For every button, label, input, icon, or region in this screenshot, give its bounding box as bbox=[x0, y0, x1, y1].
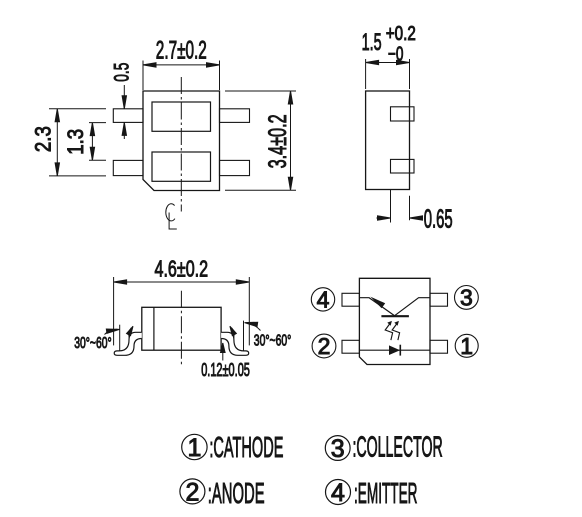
svg-text:0.65: 0.65 bbox=[424, 204, 453, 234]
svg-text:30°~60°: 30°~60° bbox=[74, 335, 112, 352]
side view: lower lead bbox=[391, 159, 415, 173]
pin circle 3 bbox=[455, 285, 479, 311]
top view: vertical centerline bbox=[180, 77, 182, 212]
left 30~60 leader arrow bbox=[105, 327, 120, 334]
svg-text:3: 3 bbox=[460, 285, 473, 311]
svg-text:−0: −0 bbox=[388, 43, 404, 65]
top view: package body outline bbox=[143, 91, 220, 191]
svg-text:+0.2: +0.2 bbox=[386, 23, 416, 45]
top view: lead pin 4 (upper-left) bbox=[113, 109, 143, 123]
right 30~60 leader arrow bbox=[244, 320, 260, 330]
side view: package body bbox=[366, 91, 410, 190]
dimension 0.12±0.05 bbox=[201, 343, 250, 380]
light arrow 2 bbox=[392, 321, 399, 340]
top view: lead pin 1 (upper-right) bbox=[220, 109, 250, 123]
svg-text:1: 1 bbox=[187, 434, 201, 462]
svg-text:1.3: 1.3 bbox=[63, 129, 88, 155]
legend pin 3 circle bbox=[325, 435, 350, 463]
svg-text::ANODE: :ANODE bbox=[208, 478, 265, 510]
svg-text:2: 2 bbox=[318, 333, 331, 359]
front view: body face line bbox=[153, 307, 155, 350]
front view: vertical centerline bbox=[180, 291, 182, 366]
dimension 3.4±0.2 bbox=[225, 91, 296, 190]
svg-text::CATHODE: :CATHODE bbox=[209, 432, 283, 464]
top view: die pad window lower bbox=[152, 152, 211, 181]
phototransistor: base bar bbox=[381, 315, 409, 317]
pin circle 1 bbox=[455, 333, 478, 359]
phototransistor: emitter wire bbox=[359, 298, 394, 316]
schematic: package body bbox=[359, 278, 430, 364]
svg-text::EMITTER: :EMITTER bbox=[354, 478, 418, 510]
svg-text:2.7±0.2: 2.7±0.2 bbox=[156, 37, 207, 65]
dimension 1.5 +0.2/-0 bbox=[362, 23, 416, 89]
LED: diode triangle bbox=[389, 345, 400, 355]
pin circle 2 bbox=[312, 333, 336, 359]
top view: lead pin 2 (lower-right) bbox=[220, 160, 250, 175]
light arrow 1 bbox=[385, 321, 392, 340]
legend pin 2 circle bbox=[180, 478, 205, 506]
svg-text:3: 3 bbox=[331, 435, 345, 463]
legend pin 1 circle bbox=[182, 434, 207, 462]
front view: dimension 4.6±0.2 bbox=[114, 256, 250, 346]
top view: die pad window upper bbox=[152, 102, 211, 131]
svg-text:4: 4 bbox=[317, 287, 330, 313]
LED: cathode bar bbox=[399, 345, 401, 356]
svg-text:30°~60°: 30°~60° bbox=[254, 333, 291, 350]
svg-text:1: 1 bbox=[460, 333, 473, 359]
svg-text:2.3: 2.3 bbox=[31, 126, 56, 152]
svg-text:0.5: 0.5 bbox=[111, 63, 134, 82]
svg-text:2: 2 bbox=[185, 478, 199, 506]
svg-text:4.6±0.2: 4.6±0.2 bbox=[155, 256, 209, 282]
left angle witness line bbox=[119, 325, 121, 351]
front view: left gull-wing lead bbox=[114, 332, 142, 355]
svg-text:1.5: 1.5 bbox=[362, 29, 382, 56]
schematic: lead pin 3 (top-right) bbox=[430, 293, 448, 306]
dimension 2.3 bbox=[31, 109, 107, 176]
svg-text:3.4±0.2: 3.4±0.2 bbox=[264, 114, 292, 168]
LED: anode-cathode wire bbox=[359, 349, 430, 351]
dimension 2.7±0.2 bbox=[143, 37, 220, 91]
dimension 0.5 bbox=[111, 63, 134, 139]
left bend leader arrow bbox=[127, 325, 136, 338]
front view: package body bbox=[142, 307, 221, 350]
right bend leader arrow bbox=[228, 325, 237, 338]
dimension 1.3 bbox=[63, 123, 106, 161]
pin circle 4 bbox=[311, 287, 334, 313]
dimension 0.65 bbox=[376, 190, 452, 234]
schematic: lead pin 2 (bottom-left) bbox=[342, 340, 359, 353]
legend pin 4 circle bbox=[326, 479, 351, 507]
right angle witness line bbox=[243, 321, 245, 351]
svg-text:4: 4 bbox=[331, 479, 345, 507]
svg-text::COLLECTOR: :COLLECTOR bbox=[353, 432, 443, 464]
side view: upper lead bbox=[391, 107, 415, 121]
front view: right gull-wing lead bbox=[221, 332, 249, 355]
schematic: lead pin 4 (top-left) bbox=[342, 293, 359, 306]
schematic: lead pin 1 (bottom-right) bbox=[430, 340, 448, 353]
phototransistor: collector wire bbox=[395, 298, 430, 316]
svg-text:0.12±0.05: 0.12±0.05 bbox=[201, 360, 250, 380]
centerline symbol bbox=[166, 204, 177, 229]
phototransistor: emitter arrow bbox=[370, 297, 385, 309]
top view: lead pin 3 (lower-left) bbox=[113, 160, 143, 175]
